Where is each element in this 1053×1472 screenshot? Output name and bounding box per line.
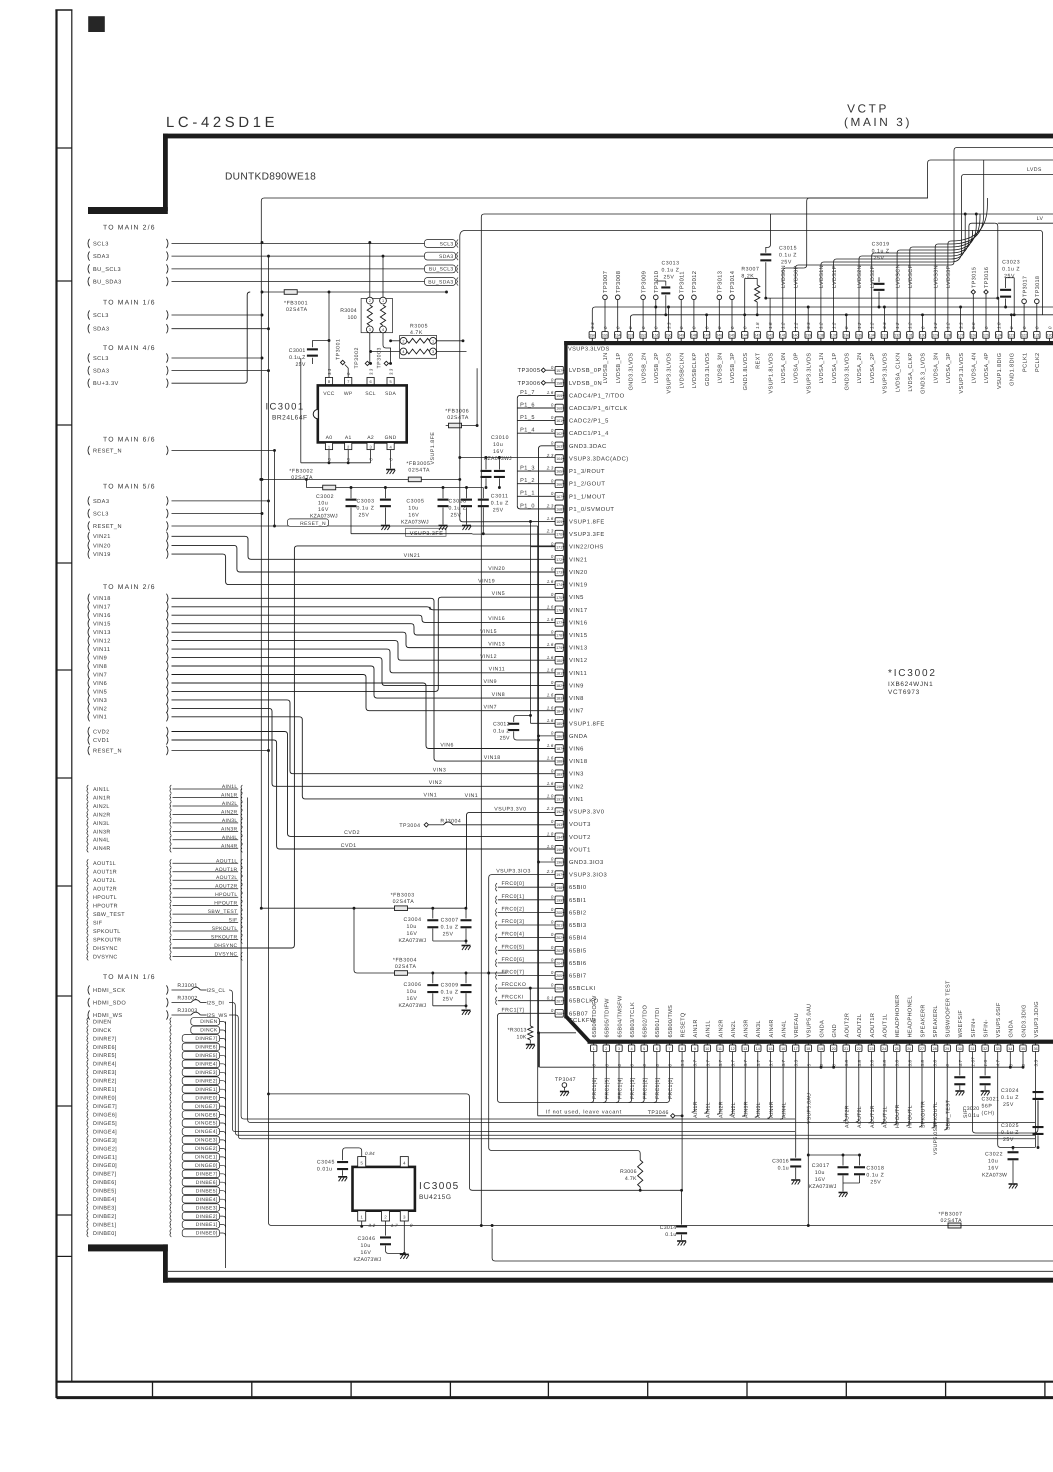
node VIN16 callout (88, 611, 168, 620)
svg-text:10u: 10u (407, 924, 417, 930)
svg-text:PCLK1: PCLK1 (1022, 353, 1028, 372)
svg-text:AIN3L: AIN3L (756, 1020, 762, 1037)
svg-text:19: 19 (819, 1047, 823, 1051)
ground C3014 (677, 1240, 686, 1242)
svg-text:207: 207 (556, 999, 562, 1003)
wire RESET_N link vertical (274, 450, 276, 526)
svg-text:I2S_CL: I2S_CL (207, 988, 226, 994)
svg-text:195: 195 (556, 848, 562, 852)
svg-text:GND3.3_LVDS: GND3.3_LVDS (921, 353, 927, 394)
svg-text:VIN2: VIN2 (569, 783, 584, 790)
svg-text:C3023: C3023 (1002, 260, 1020, 266)
svg-text:KZA073W: KZA073W (982, 1173, 1007, 1179)
svg-text:KZA073WJ: KZA073WJ (401, 520, 429, 526)
label RESET_N boxed (288, 519, 329, 526)
node SPKOUTR callout (87, 935, 238, 944)
svg-text:P1_6: P1_6 (520, 402, 535, 408)
svg-text:SBW_TEST: SBW_TEST (93, 912, 125, 918)
svg-text:VIN21: VIN21 (569, 556, 588, 563)
svg-text:HPOUTL: HPOUTL (908, 1105, 914, 1128)
svg-text:DINRE2]: DINRE2] (93, 1079, 117, 1085)
node AIN2L callout (87, 801, 238, 810)
node DINRE0] callout (87, 1094, 220, 1102)
svg-text:FRC1[6]: FRC1[6] (592, 1077, 598, 1099)
svg-text:VIN6: VIN6 (440, 742, 454, 748)
svg-text:1.6: 1.6 (547, 756, 554, 761)
svg-text:VOUT3: VOUT3 (569, 821, 591, 828)
svg-text:AIN2L: AIN2L (731, 1102, 737, 1118)
node DINBE4] callout (87, 1195, 220, 1203)
C3010 plates (485, 458, 487, 470)
svg-text:173: 173 (556, 571, 562, 575)
svg-text:FRC0[3]: FRC0[3] (502, 919, 525, 925)
node DINBE0] callout (87, 1229, 220, 1237)
svg-text:LVDS3P: LVDS3P (946, 265, 952, 288)
svg-text:160: 160 (556, 407, 562, 411)
svg-text:0: 0 (551, 403, 554, 408)
svg-text:DINRE1]: DINRE1] (93, 1087, 117, 1093)
ground C3003 (381, 525, 390, 527)
svg-text:SPEAKERR: SPEAKERR (920, 1004, 926, 1037)
wire VIN to pin 177 (172, 615, 556, 622)
node DINRE5] callout (87, 1051, 220, 1059)
svg-text:FRC0[4]: FRC0[4] (502, 932, 525, 938)
wire P1_6 hook (517, 407, 555, 409)
svg-text:1.6: 1.6 (547, 617, 554, 622)
svg-text:65B01/TDI: 65B01/TDI (654, 1008, 661, 1038)
svg-text:VIN18: VIN18 (93, 596, 111, 602)
svg-text:3: 3 (432, 350, 434, 354)
svg-text:100: 100 (347, 315, 357, 321)
svg-text:LVDS1N: LVDS1N (819, 265, 825, 288)
svg-text:KZA073WJ: KZA073WJ (354, 1257, 382, 1263)
node VIN15 callout (88, 619, 168, 628)
svg-text:3.8: 3.8 (933, 1059, 938, 1066)
svg-text:56P: 56P (982, 1104, 993, 1110)
svg-text:1.8: 1.8 (547, 831, 554, 836)
junction dots on I2C verticals (261, 241, 276, 752)
svg-text:3.7: 3.7 (743, 1059, 748, 1066)
svg-text:191: 191 (556, 798, 562, 802)
schematic border bottom bar (163, 1278, 1053, 1283)
svg-text:131: 131 (907, 334, 913, 338)
wire VSUP3.3FE to pin170 (472, 533, 555, 535)
inner hairline above bottom border (168, 1270, 1053, 1272)
svg-text:DINGE1]: DINGE1] (195, 1155, 218, 1161)
svg-text:0: 0 (551, 970, 554, 975)
node DINBE7] callout (87, 1170, 220, 1178)
wire FRC0[1] (498, 899, 556, 901)
svg-text:FRC1[7]: FRC1[7] (502, 1007, 525, 1013)
svg-text:VIN20: VIN20 (93, 543, 111, 549)
svg-text:P1_0/SVMOUT: P1_0/SVMOUT (569, 506, 614, 513)
svg-text:3.8: 3.8 (857, 1059, 862, 1066)
svg-text:C3011: C3011 (491, 494, 509, 500)
svg-text:0: 0 (551, 983, 554, 988)
svg-text:VIN19: VIN19 (93, 552, 111, 558)
svg-text:DUNTKD890WE18: DUNTKD890WE18 (225, 172, 316, 183)
node DINGE0] callout (87, 1161, 220, 1169)
svg-text:0.01u: 0.01u (317, 1167, 333, 1173)
svg-text:C3012: C3012 (493, 722, 510, 728)
node AOUT2L callout (87, 875, 238, 884)
svg-text:3.2: 3.2 (368, 1223, 375, 1228)
wire VIN to pin 182 (172, 658, 556, 686)
svg-text:TP3007: TP3007 (603, 271, 609, 293)
svg-text:33: 33 (996, 1047, 1000, 1051)
node CVD2 callout (88, 727, 168, 736)
svg-text:LVDSB_2N: LVDSB_2N (641, 353, 647, 384)
node SCL3 callout (88, 353, 168, 362)
svg-text:189: 189 (556, 772, 562, 776)
svg-text:0: 0 (1047, 326, 1052, 329)
svg-text:1: 1 (382, 299, 384, 303)
svg-text:P1_1: P1_1 (520, 491, 535, 497)
svg-text:C3018: C3018 (866, 1166, 884, 1172)
svg-text:DINRE1]: DINRE1] (195, 1087, 217, 1093)
wire FRCCKI (498, 1000, 556, 1002)
svg-text:0: 0 (551, 680, 554, 685)
svg-text:65BI4: 65BI4 (569, 935, 587, 942)
svg-text:VIN3: VIN3 (569, 771, 584, 778)
schematic border top-left step (88, 207, 168, 214)
svg-text:SPKOUTR: SPKOUTR (920, 1101, 926, 1128)
svg-text:LVDS: LVDS (1027, 167, 1042, 173)
svg-text:1.7: 1.7 (391, 1223, 398, 1228)
svg-text:3.7: 3.7 (731, 1059, 736, 1066)
svg-text:HEADPHONER: HEADPHONER (895, 995, 901, 1038)
svg-text:193: 193 (556, 823, 562, 827)
svg-text:HEADPHONEL: HEADPHONEL (908, 995, 914, 1037)
svg-text:0: 0 (551, 377, 554, 382)
svg-text:0: 0 (410, 1223, 413, 1228)
svg-text:I2S_WS: I2S_WS (207, 1013, 228, 1019)
svg-text:AOUT2L: AOUT2L (857, 1106, 863, 1128)
svg-text:65BCLKI: 65BCLKI (569, 985, 596, 992)
svg-text:0: 0 (551, 491, 554, 496)
svg-text:BU4215G: BU4215G (419, 1194, 451, 1201)
svg-text:VSUP3.3LVDS: VSUP3.3LVDS (959, 353, 965, 394)
svg-text:LVDSA_1N: LVDSA_1N (819, 353, 825, 384)
IC3002 left pin column (546, 365, 629, 1024)
svg-text:8: 8 (681, 1047, 683, 1051)
svg-text:AOUT1L: AOUT1L (883, 1106, 889, 1128)
svg-text:3.3: 3.3 (388, 368, 393, 375)
op IC3002 chip outline (564, 341, 1053, 1044)
svg-text:185: 185 (556, 722, 562, 726)
wire VIN to pin 188 (172, 598, 556, 761)
svg-text:25V: 25V (781, 260, 792, 266)
ground C3007 (462, 945, 471, 947)
svg-text:AIN1L: AIN1L (93, 787, 110, 793)
wire VSUP3.3FE rail (351, 533, 472, 535)
svg-text:3.7: 3.7 (769, 1059, 774, 1066)
svg-text:172: 172 (556, 558, 562, 562)
svg-text:DINRE4]: DINRE4] (195, 1062, 217, 1068)
svg-text:VIN15: VIN15 (93, 622, 111, 628)
wire ground bus y314.8 (630, 315, 1053, 332)
svg-text:AIN1R: AIN1R (693, 1019, 699, 1037)
svg-text:VSUP1.8LVDS: VSUP1.8LVDS (768, 353, 774, 394)
svg-text:LVDS1P: LVDS1P (832, 265, 838, 288)
svg-text:AIN1L: AIN1L (706, 1102, 712, 1118)
node DINEN callout (87, 1018, 220, 1026)
node DINBE6] callout (87, 1178, 220, 1186)
svg-text:FRC1[2]: FRC1[2] (643, 1077, 649, 1099)
svg-text:0: 0 (551, 630, 554, 635)
node DINGE1] callout (87, 1153, 220, 1161)
capacitor C3020 (959, 1052, 961, 1076)
svg-text:LVDSB_2P: LVDSB_2P (654, 353, 660, 384)
svg-text:0: 0 (551, 907, 554, 912)
svg-text:TO MAIN 1/6: TO MAIN 1/6 (103, 974, 156, 981)
svg-text:197: 197 (556, 873, 562, 877)
svg-text:0.1u Z: 0.1u Z (662, 268, 680, 274)
node VIN9 callout (88, 653, 168, 662)
svg-text:0.1: 0.1 (547, 995, 554, 1000)
svg-text:3.8: 3.8 (920, 1059, 925, 1066)
svg-text:147: 147 (704, 334, 710, 338)
svg-text:AIN1R: AIN1R (93, 795, 111, 801)
wire VREFAU dropper / C3016 (795, 1052, 797, 1158)
svg-text:FRC0[0]: FRC0[0] (502, 881, 525, 887)
svg-text:A0: A0 (326, 435, 333, 441)
wire pins34-36 (1009, 1052, 1011, 1068)
svg-text:25: 25 (895, 1047, 899, 1051)
node DINBE2] callout (87, 1212, 220, 1220)
svg-text:DINBE6]: DINBE6] (196, 1180, 218, 1186)
wire RESETQ dropper (681, 1052, 683, 1191)
node DINRE1] callout (87, 1085, 220, 1093)
svg-text:DINGE2]: DINGE2] (195, 1146, 218, 1152)
svg-text:LVDSA_CLKP: LVDSA_CLKP (908, 353, 914, 392)
svg-text:0: 0 (551, 819, 554, 824)
svg-text:VIN1: VIN1 (424, 793, 438, 799)
svg-text:FRC0[5]: FRC0[5] (502, 944, 525, 950)
svg-text:SIF: SIF (93, 921, 103, 927)
svg-text:C3024: C3024 (1001, 1088, 1019, 1094)
svg-text:VIN13: VIN13 (488, 641, 505, 647)
svg-text:3.8: 3.8 (870, 1059, 875, 1066)
svg-text:02S4TA: 02S4TA (286, 307, 308, 313)
svg-text:DINGE5]: DINGE5] (195, 1121, 218, 1127)
svg-text:VSUP5.0SIF: VSUP5.0SIF (996, 1002, 1002, 1037)
svg-text:65BI5: 65BI5 (569, 947, 587, 954)
svg-text:5: 5 (806, 1064, 811, 1067)
wire VSUP1.8FE to pin169 (460, 519, 556, 522)
svg-text:DVSYNC: DVSYNC (93, 954, 118, 960)
svg-text:SCL3: SCL3 (93, 313, 109, 319)
node DHSYNC callout (87, 943, 238, 952)
svg-text:CVD2: CVD2 (93, 729, 110, 735)
wire riser A (951, 148, 1053, 266)
svg-text:GND3.3DIG: GND3.3DIG (1021, 1004, 1027, 1037)
svg-text:FRC0[1]: FRC0[1] (502, 894, 525, 900)
svg-text:A1: A1 (345, 435, 352, 441)
svg-text:25V: 25V (870, 1180, 881, 1186)
wire FRC0[6] (498, 962, 556, 964)
svg-text:1.6: 1.6 (547, 743, 554, 748)
svg-text:122: 122 (1021, 334, 1027, 338)
node VIN17 callout (88, 602, 168, 611)
svg-text:R3006: R3006 (620, 1169, 637, 1175)
svg-text:VSUP1.8FE: VSUP1.8FE (569, 720, 605, 727)
node VIN6 callout (88, 678, 168, 687)
wire VIN to pin 179 (172, 632, 556, 647)
IC IC3005 body (353, 1167, 415, 1211)
svg-text:1.6: 1.6 (547, 667, 554, 672)
wire SDA3 (top) (172, 255, 425, 257)
svg-text:204: 204 (556, 962, 562, 966)
svg-text:RJ3001: RJ3001 (177, 983, 197, 989)
svg-text:180: 180 (556, 659, 562, 663)
svg-text:HDMI_WS: HDMI_WS (93, 1013, 123, 1019)
svg-text:GD3.3LVDS: GD3.3LVDS (705, 353, 711, 387)
svg-text:FRCCKO: FRCCKO (502, 982, 527, 988)
svg-text:*FB3002: *FB3002 (289, 469, 313, 475)
svg-text:186: 186 (556, 735, 562, 739)
svg-text:3.3: 3.3 (794, 1059, 799, 1066)
svg-text:VIN18: VIN18 (569, 758, 588, 765)
svg-text:1.6: 1.6 (983, 1059, 988, 1066)
svg-text:FRC0[2]: FRC0[2] (502, 906, 525, 912)
svg-text:C3017: C3017 (812, 1163, 830, 1169)
wire IC3005 pin3 (403, 1221, 405, 1253)
schematic border bottom-left step (88, 1244, 168, 1251)
svg-text:163: 163 (556, 445, 562, 449)
svg-text:SIFIN-: SIFIN- (984, 1019, 990, 1037)
wire supply bus y307 (592, 307, 1053, 332)
node AIN3L callout (87, 818, 238, 827)
svg-text:199: 199 (556, 898, 562, 902)
svg-text:192: 192 (556, 810, 562, 814)
svg-text:VIN18: VIN18 (484, 755, 501, 761)
svg-text:TP3003: TP3003 (376, 347, 382, 368)
svg-text:DINRE2]: DINRE2] (195, 1078, 217, 1084)
svg-text:AOUT1R: AOUT1R (870, 1105, 876, 1128)
svg-text:DINRE3]: DINRE3] (195, 1070, 217, 1076)
svg-text:0: 0 (630, 1064, 635, 1067)
svg-text:10u: 10u (493, 442, 503, 448)
svg-text:FRC1[0]: FRC1[0] (668, 1077, 674, 1099)
svg-text:C3022: C3022 (985, 1152, 1003, 1158)
svg-text:14: 14 (756, 1047, 760, 1051)
svg-text:32: 32 (983, 1047, 987, 1051)
svg-text:AOUT2R: AOUT2R (845, 1013, 851, 1038)
svg-text:0: 0 (551, 415, 554, 420)
svg-text:3.7: 3.7 (781, 1059, 786, 1066)
svg-text:DINRE5]: DINRE5] (93, 1053, 117, 1059)
svg-text:0.1u: 0.1u (968, 1113, 979, 1119)
svg-text:TP3005: TP3005 (517, 367, 540, 374)
svg-text:1.6: 1.6 (547, 693, 554, 698)
node VIN19 callout (88, 550, 168, 559)
svg-text:GND1.8DIG: GND1.8DIG (1010, 353, 1016, 386)
svg-text:02S4TA: 02S4TA (447, 415, 469, 421)
svg-text:SCL3: SCL3 (440, 241, 454, 247)
svg-text:126: 126 (970, 334, 976, 338)
svg-text:0.1u: 0.1u (665, 1232, 676, 1238)
node VIN5 callout (88, 687, 168, 696)
wire GND3.3IO3 pin196 (539, 861, 556, 863)
node VIN8 callout (88, 661, 168, 670)
svg-text:VIN21: VIN21 (93, 534, 111, 540)
node AIN4L callout (87, 835, 238, 844)
svg-text:FRC1[3]: FRC1[3] (630, 1077, 636, 1099)
svg-text:AIN4L: AIN4L (782, 1102, 788, 1118)
wire AIN1R long drop (248, 798, 1035, 1123)
svg-text:0: 0 (551, 592, 554, 597)
LVDS signal fan (781, 241, 952, 332)
svg-text:183: 183 (556, 697, 562, 701)
svg-text:16V: 16V (815, 1177, 826, 1183)
svg-text:P1_3/ROUT: P1_3/ROUT (569, 468, 605, 475)
svg-text:144: 144 (742, 334, 748, 338)
node DINGE3] callout (87, 1136, 220, 1144)
wire FRC0[7] (498, 975, 556, 977)
IC3001 top pins 8,7,6,5 (325, 368, 394, 384)
svg-text:0.1u Z: 0.1u Z (441, 990, 459, 996)
wire BU_SDA3 (172, 281, 425, 283)
node RESET_N callout (88, 521, 168, 530)
svg-text:LVDSB_3N: LVDSB_3N (718, 353, 724, 384)
svg-text:25V: 25V (359, 513, 370, 519)
svg-text:1.6: 1.6 (547, 390, 554, 395)
svg-text:34: 34 (1008, 1047, 1012, 1051)
node CVD1 callout (88, 735, 168, 744)
svg-text:I2S_DI: I2S_DI (207, 1001, 225, 1007)
svg-text:145: 145 (729, 334, 735, 338)
svg-text:LVDSCN: LVDSCN (895, 264, 901, 288)
svg-text:*FB3003: *FB3003 (391, 893, 415, 899)
svg-text:3.8: 3.8 (882, 1059, 887, 1066)
svg-text:DINBE4]: DINBE4] (93, 1197, 117, 1203)
node DINGE6] callout (87, 1111, 220, 1119)
IC3005 pin4 (400, 1157, 408, 1167)
svg-text:VIN7: VIN7 (569, 709, 584, 715)
svg-text:SCL: SCL (365, 391, 376, 397)
svg-text:DINGE4]: DINGE4] (195, 1129, 218, 1135)
svg-text:10u: 10u (408, 506, 418, 512)
svg-text:DINBE1]: DINBE1] (196, 1222, 218, 1228)
wire FRC0[4] (498, 937, 556, 939)
svg-text:BU_SCL3: BU_SCL3 (429, 267, 454, 273)
svg-text:AOUT1R: AOUT1R (93, 870, 117, 876)
wire AOUT droppers pins21-28 (843, 1052, 939, 1129)
svg-text:130: 130 (920, 334, 926, 338)
svg-text:0: 0 (551, 920, 554, 925)
IC3002 top pin row (589, 322, 1053, 394)
svg-text:27: 27 (920, 1047, 924, 1051)
IC3001 pin labels (323, 391, 396, 441)
svg-text:DINEN: DINEN (93, 1019, 112, 1025)
svg-text:C3001: C3001 (289, 348, 306, 354)
svg-text:R3004: R3004 (340, 308, 357, 314)
node AOUT1L callout (87, 858, 238, 867)
node SBW_TEST callout (87, 909, 238, 918)
node DINRE3] callout (87, 1068, 220, 1076)
svg-text:VSUP3.3IO3: VSUP3.3IO3 (569, 872, 607, 879)
svg-text:SPEAKERL: SPEAKERL (933, 1005, 939, 1037)
svg-text:C3016: C3016 (772, 1159, 789, 1165)
wire riser B steps (804, 160, 1053, 268)
svg-text:WP: WP (344, 391, 353, 397)
svg-text:139: 139 (805, 334, 811, 338)
node VIN13 callout (88, 628, 168, 637)
wire FRC0[3] (498, 924, 556, 926)
wires R3004 to SCL/SDA (369, 243, 371, 298)
svg-text:SCL3: SCL3 (93, 356, 109, 362)
